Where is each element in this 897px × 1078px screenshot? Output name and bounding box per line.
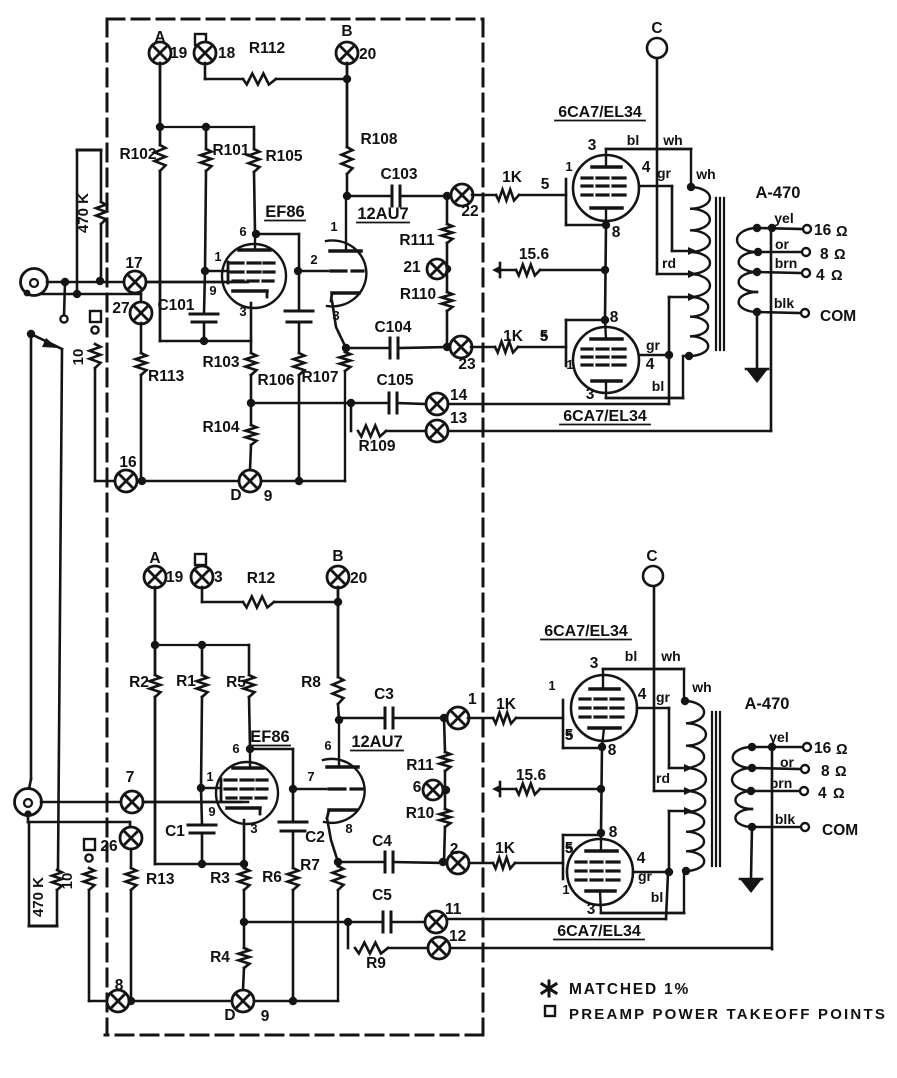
wire — [472, 194, 496, 197]
svg-text:D: D — [224, 1007, 235, 1024]
wire — [391, 921, 425, 924]
wire — [250, 375, 253, 403]
svg-text:4: 4 — [818, 785, 827, 802]
terminal 16 — [115, 470, 137, 492]
wire — [251, 402, 388, 405]
tube 12AU7 V6 — [323, 720, 365, 823]
terminal 18 — [194, 42, 216, 64]
node — [240, 918, 248, 926]
capacitor C103 — [392, 186, 400, 206]
wire — [516, 717, 563, 720]
svg-text:brn: brn — [775, 255, 798, 271]
svg-text:rd: rd — [656, 770, 670, 786]
svg-text:17: 17 — [125, 255, 142, 272]
tube 6CA7 V3 — [573, 149, 639, 225]
svg-text:yel: yel — [769, 729, 788, 745]
tube 6CA7 V7 — [571, 669, 637, 747]
wire — [386, 430, 426, 433]
node — [73, 290, 81, 298]
node cathode — [601, 316, 609, 324]
svg-text:7: 7 — [126, 769, 135, 786]
wire — [446, 311, 449, 347]
svg-text:6CA7/EL34: 6CA7/EL34 — [557, 923, 641, 940]
arrow tap — [684, 787, 693, 795]
wire — [400, 195, 452, 198]
capacitor C102 — [285, 311, 313, 322]
wire — [540, 788, 601, 791]
ground — [492, 263, 500, 277]
svg-text:9: 9 — [261, 1008, 270, 1025]
node — [295, 477, 303, 485]
core — [715, 198, 717, 350]
node — [687, 183, 695, 191]
svg-text:3: 3 — [586, 386, 595, 403]
capacitor C101 — [190, 314, 218, 322]
wire brn — [757, 272, 801, 273]
power takeoff square 10 — [90, 311, 101, 322]
svg-text:27: 27 — [112, 300, 129, 317]
svg-text:5: 5 — [565, 728, 572, 743]
node — [246, 745, 254, 753]
svg-text:C101: C101 — [157, 297, 194, 314]
resistor R11 — [444, 718, 445, 752]
grid bracket — [562, 700, 565, 748]
svg-text:470 K: 470 K — [30, 877, 47, 917]
resistor 1K — [495, 342, 518, 353]
svg-text:1: 1 — [468, 691, 477, 708]
terminal 20 — [327, 566, 349, 588]
wire input shield — [40, 293, 141, 296]
svg-text:Ω: Ω — [834, 247, 846, 263]
wire — [298, 375, 301, 481]
resistor R103 — [250, 341, 253, 353]
input jack J2 — [15, 789, 42, 818]
wire cathode link — [160, 340, 251, 343]
svg-text:R104: R104 — [202, 419, 239, 436]
node plate junction — [343, 192, 351, 200]
resistor R12 — [202, 601, 243, 604]
terminal COM — [801, 823, 809, 831]
resistor R107 — [340, 352, 351, 371]
node — [442, 786, 450, 794]
svg-text:R107: R107 — [301, 369, 338, 386]
svg-text:20: 20 — [359, 46, 376, 63]
wire — [201, 697, 202, 788]
node — [334, 598, 342, 606]
node — [443, 192, 451, 200]
wire switch right — [58, 350, 62, 870]
terminal 4 ohm — [802, 269, 810, 277]
svg-text:9: 9 — [264, 488, 273, 505]
wire — [204, 271, 205, 314]
resistor R13 — [130, 849, 133, 868]
svg-text:R1: R1 — [176, 673, 196, 690]
svg-text:wh: wh — [695, 166, 715, 182]
wire — [338, 704, 339, 720]
terminal 14 — [426, 393, 448, 415]
svg-text:16: 16 — [814, 222, 832, 239]
wire — [393, 717, 448, 720]
wire cathode — [250, 303, 253, 341]
svg-text:20: 20 — [350, 570, 367, 587]
svg-text:R111: R111 — [399, 232, 435, 249]
wire — [346, 174, 349, 196]
svg-text:R105: R105 — [265, 148, 302, 165]
resistor R3 — [243, 864, 246, 868]
ground arrow — [740, 879, 762, 893]
tube 6CA7 V4 — [573, 320, 639, 398]
svg-text:C4: C4 — [372, 833, 392, 850]
svg-text:3: 3 — [590, 655, 599, 672]
power takeoff square 10 — [84, 839, 95, 850]
wire screen gr — [639, 354, 669, 357]
wire — [292, 831, 295, 868]
wire — [518, 346, 566, 349]
wire — [337, 587, 340, 677]
wire feedback — [771, 747, 774, 949]
svg-text:1: 1 — [562, 882, 569, 897]
capacitor C1 — [188, 825, 216, 833]
terminal 26 — [120, 827, 142, 849]
wire grid2 — [298, 270, 328, 273]
svg-text:10: 10 — [59, 873, 76, 890]
power takeoff square 18 — [195, 34, 206, 45]
arrow tap — [684, 764, 693, 772]
wire — [502, 269, 516, 272]
svg-text:16: 16 — [814, 740, 832, 757]
svg-text:rd: rd — [662, 255, 676, 271]
svg-text:Ω: Ω — [833, 786, 845, 802]
grid bracket — [565, 320, 568, 366]
node — [344, 918, 352, 926]
svg-text:R7: R7 — [300, 857, 320, 874]
resistor R109 — [358, 426, 386, 437]
terminal 22 — [451, 184, 473, 206]
svg-text:bl: bl — [651, 889, 663, 905]
resistor R4 — [243, 922, 246, 948]
node cathode — [602, 221, 610, 229]
arrow tap — [684, 807, 693, 815]
svg-text:R102: R102 — [119, 146, 156, 163]
svg-text:R6: R6 — [262, 869, 282, 886]
primary winding — [690, 187, 710, 252]
wire blk — [757, 312, 800, 313]
svg-text:C2: C2 — [305, 829, 325, 846]
wire — [345, 348, 346, 352]
wire — [447, 918, 666, 921]
svg-text:10: 10 — [70, 349, 87, 366]
svg-text:1: 1 — [206, 769, 213, 784]
svg-text:3: 3 — [250, 821, 257, 836]
wire — [469, 862, 493, 865]
svg-text:14: 14 — [450, 387, 468, 404]
svg-text:gr: gr — [657, 165, 672, 181]
arrow tap — [688, 293, 697, 301]
node — [601, 266, 609, 274]
wire feedback — [450, 947, 771, 950]
wire — [397, 403, 426, 404]
wire — [254, 172, 255, 232]
node — [439, 858, 447, 866]
resistor 15.6 — [516, 784, 540, 795]
terminal 8 ohm — [801, 765, 809, 773]
resistor 470 K — [28, 822, 31, 926]
ground bus D — [95, 480, 345, 483]
terminal 8 ohm — [802, 248, 810, 256]
svg-text:bl: bl — [627, 132, 639, 148]
label 12AU7 — [351, 733, 403, 751]
power takeoff square — [195, 554, 206, 565]
terminal 1 — [447, 707, 469, 729]
wire cathode — [332, 301, 346, 348]
svg-text:4: 4 — [638, 686, 647, 703]
resistor R2 — [150, 675, 161, 697]
wire — [393, 862, 447, 863]
ground — [492, 782, 500, 796]
svg-text:4: 4 — [637, 850, 646, 867]
svg-text:9: 9 — [208, 804, 215, 819]
wire — [201, 788, 202, 825]
wire — [292, 890, 295, 1001]
resistor R10 — [440, 809, 451, 827]
svg-text:6: 6 — [232, 741, 239, 756]
resistor R110 — [442, 292, 453, 311]
terminal 6 — [423, 780, 443, 800]
label 12AU7 — [357, 205, 409, 223]
svg-text:3: 3 — [588, 137, 597, 154]
terminal D 9 — [232, 990, 254, 1012]
wire — [154, 587, 157, 675]
svg-text:1K: 1K — [496, 696, 517, 713]
svg-text:3: 3 — [239, 304, 246, 319]
node — [198, 860, 206, 868]
core — [711, 712, 713, 866]
svg-text:A-470: A-470 — [756, 184, 801, 202]
svg-text:blk: blk — [775, 811, 795, 827]
tube 6CA7 V8 — [567, 833, 633, 913]
node — [443, 265, 451, 273]
node — [443, 343, 451, 351]
wire grid9 — [146, 281, 247, 284]
svg-text:4: 4 — [816, 267, 825, 284]
wire cathode link — [605, 225, 606, 320]
wire yel — [752, 746, 803, 749]
svg-text:R4: R4 — [210, 949, 230, 966]
svg-text:R10: R10 — [406, 805, 434, 822]
legend square — [545, 1006, 555, 1016]
svg-text:R13: R13 — [146, 871, 175, 888]
svg-text:B: B — [332, 548, 343, 565]
resistor R9 — [355, 943, 388, 954]
secondary winding — [737, 228, 757, 252]
wire — [337, 862, 340, 866]
terminal COM — [801, 309, 809, 317]
terminal 17 — [124, 271, 146, 293]
wire — [205, 171, 206, 271]
svg-text:1: 1 — [566, 357, 573, 372]
svg-text:9: 9 — [209, 283, 216, 298]
resistor R6 — [288, 868, 299, 890]
grid bracket — [565, 179, 568, 225]
wire — [203, 322, 206, 341]
svg-text:5: 5 — [565, 841, 572, 856]
svg-text:C: C — [651, 20, 662, 37]
wire plate bl — [603, 668, 684, 671]
resistor 1K — [493, 713, 516, 724]
terminal 21 — [427, 259, 447, 279]
wire — [244, 921, 382, 924]
capacitor C5 — [383, 912, 391, 932]
svg-text:19: 19 — [166, 569, 184, 586]
wire — [154, 697, 157, 864]
svg-text:26: 26 — [100, 838, 118, 855]
svg-text:21: 21 — [403, 259, 421, 276]
svg-text:C105: C105 — [376, 372, 413, 389]
tube EF86 V5 — [216, 749, 278, 824]
terminal 27 — [130, 302, 152, 324]
svg-text:R110: R110 — [400, 286, 436, 303]
wire C supply — [656, 57, 659, 274]
svg-text:C5: C5 — [372, 887, 392, 904]
resistor R105 — [253, 127, 256, 149]
svg-text:EF86: EF86 — [265, 203, 304, 221]
wire blk — [752, 826, 800, 829]
node — [665, 351, 673, 359]
wire — [540, 269, 605, 272]
open terminal 10 — [85, 854, 92, 861]
wire input hot — [41, 801, 248, 804]
svg-text:R12: R12 — [247, 570, 275, 587]
svg-text:R2: R2 — [129, 674, 149, 691]
svg-text:16: 16 — [119, 454, 137, 471]
resistor R101 — [205, 127, 208, 149]
terminal C — [647, 38, 667, 58]
capacitor C2 — [279, 822, 307, 831]
resistor R7 — [333, 866, 344, 890]
node plate EF86 — [252, 230, 260, 238]
svg-text:3: 3 — [214, 569, 223, 586]
terminal 19 — [144, 566, 166, 588]
terminal 13 — [426, 420, 448, 442]
arrow tap — [688, 270, 697, 278]
capacitor C4 — [385, 852, 393, 872]
svg-text:1K: 1K — [503, 328, 524, 345]
svg-text:R108: R108 — [360, 131, 397, 148]
node — [61, 278, 69, 286]
wire screen gr — [639, 185, 672, 188]
svg-text:8: 8 — [609, 824, 618, 841]
wire — [502, 788, 516, 791]
wire ground — [756, 312, 759, 368]
wire switch left — [30, 334, 33, 779]
terminal 19 — [149, 42, 171, 64]
wire — [346, 347, 389, 350]
wire — [444, 827, 445, 862]
terminal 23 — [450, 336, 472, 358]
node coupling — [289, 785, 297, 793]
svg-text:1: 1 — [214, 249, 221, 264]
svg-text:COM: COM — [820, 308, 856, 325]
svg-text:8: 8 — [820, 246, 829, 263]
wire — [683, 669, 685, 701]
svg-text:2: 2 — [310, 252, 317, 267]
node — [240, 860, 248, 868]
resistor 10 — [84, 868, 95, 890]
svg-text:22: 22 — [461, 203, 478, 220]
resistor R8 — [333, 677, 344, 704]
svg-text:A: A — [149, 550, 160, 567]
wire or — [758, 251, 801, 254]
node grid junction — [201, 267, 209, 275]
node cathode — [597, 829, 605, 837]
node cathode — [598, 743, 606, 751]
node — [342, 344, 350, 352]
node — [334, 858, 342, 866]
terminal 7 — [121, 791, 143, 813]
resistor R108 — [342, 147, 353, 174]
svg-text:wh: wh — [662, 132, 682, 148]
B+ rail — [155, 644, 249, 646]
resistor 15.6 — [516, 265, 540, 276]
wire — [398, 347, 451, 348]
resistor R5 — [248, 645, 251, 675]
terminal 12 — [428, 937, 450, 959]
wire — [346, 63, 349, 147]
node — [127, 997, 135, 1005]
wire grid1 — [202, 787, 221, 790]
svg-text:Ω: Ω — [835, 764, 847, 780]
capacitor C3 — [385, 708, 393, 728]
resistor R1 — [201, 645, 204, 675]
terminal 11 — [425, 911, 447, 933]
node — [597, 785, 605, 793]
svg-text:gr: gr — [638, 868, 653, 884]
terminal 2 — [447, 852, 469, 874]
wire — [339, 717, 384, 720]
svg-text:6CA7/EL34: 6CA7/EL34 — [558, 104, 642, 121]
svg-text:Ω: Ω — [836, 224, 848, 240]
svg-text:6: 6 — [324, 738, 331, 753]
svg-text:5: 5 — [541, 176, 550, 193]
capacitor C105 — [389, 393, 397, 413]
svg-text:23: 23 — [458, 356, 476, 373]
terminal 3 — [191, 566, 213, 588]
svg-text:C3: C3 — [374, 686, 394, 703]
resistor 1K — [496, 190, 519, 201]
node — [681, 697, 689, 705]
node — [347, 399, 355, 407]
svg-text:13: 13 — [450, 410, 468, 427]
node — [440, 714, 448, 722]
wire plate bl — [606, 148, 691, 151]
svg-text:470 K: 470 K — [75, 193, 92, 233]
svg-text:D: D — [230, 487, 241, 504]
svg-text:12: 12 — [449, 928, 466, 945]
svg-text:R8: R8 — [301, 674, 321, 691]
wire screen — [256, 233, 299, 236]
node cathode net — [200, 337, 208, 345]
wire — [446, 243, 449, 292]
wire cathode — [243, 820, 246, 864]
capacitor C104 — [390, 338, 398, 358]
svg-text:R3: R3 — [210, 870, 230, 887]
resistor 10 — [90, 344, 101, 368]
node — [335, 716, 343, 724]
svg-text:1K: 1K — [502, 169, 523, 186]
ground bus D — [89, 1000, 338, 1003]
svg-text:R112: R112 — [249, 40, 285, 57]
wire — [444, 771, 447, 809]
